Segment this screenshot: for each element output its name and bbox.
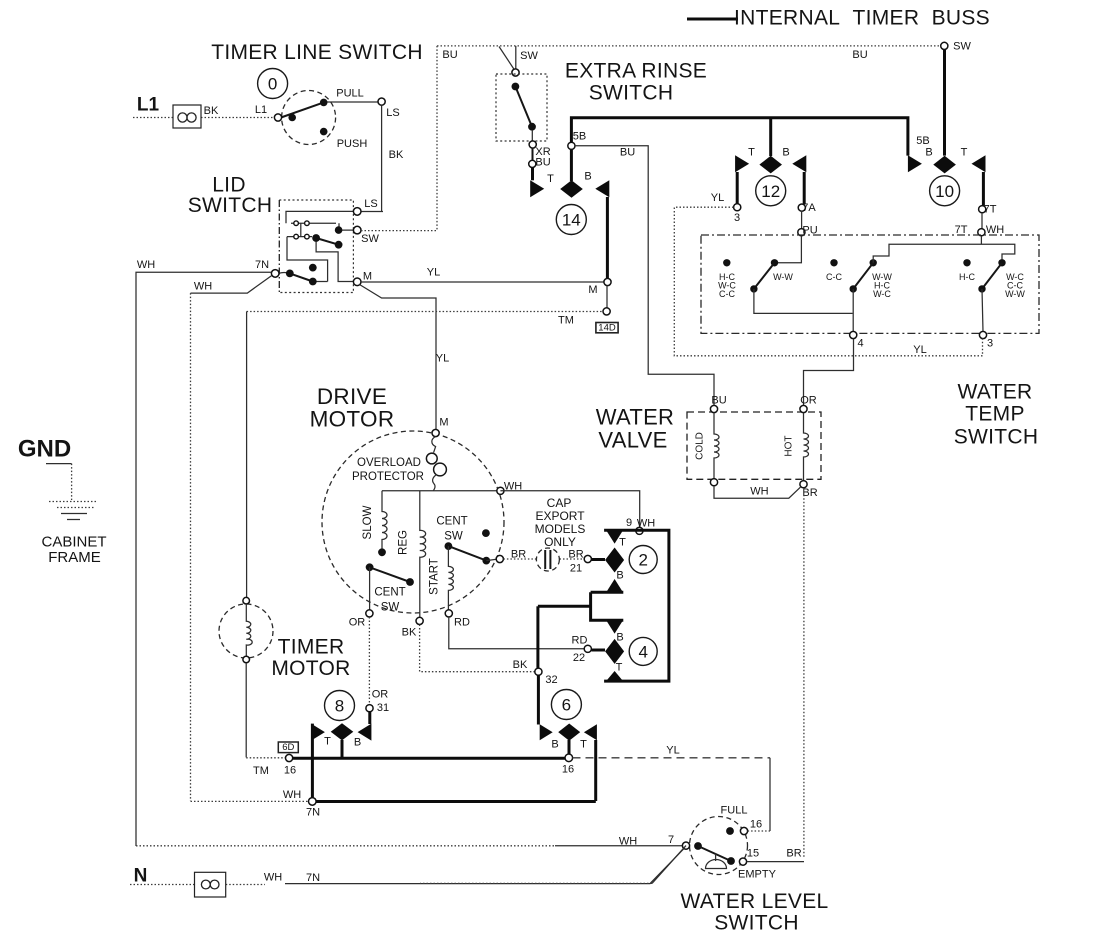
- svg-text:CABINET: CABINET: [41, 534, 106, 551]
- svg-text:W-C: W-C: [873, 289, 891, 299]
- svg-text:BK: BK: [402, 627, 417, 639]
- svg-text:B: B: [782, 147, 789, 159]
- svg-text:WH: WH: [283, 789, 301, 801]
- svg-text:BK: BK: [389, 149, 404, 161]
- svg-text:16: 16: [750, 819, 762, 831]
- svg-text:WH: WH: [137, 259, 155, 271]
- svg-text:7N: 7N: [306, 807, 320, 819]
- svg-text:FULL: FULL: [721, 805, 748, 817]
- svg-text:MODELS: MODELS: [535, 522, 586, 536]
- svg-text:YL: YL: [436, 353, 449, 365]
- svg-text:7N: 7N: [306, 872, 320, 884]
- svg-text:M: M: [363, 271, 372, 283]
- svg-text:T: T: [547, 173, 554, 185]
- svg-text:31: 31: [377, 702, 389, 714]
- svg-text:21: 21: [570, 563, 582, 575]
- svg-text:COLD: COLD: [695, 432, 706, 460]
- svg-text:7A: 7A: [802, 202, 816, 214]
- svg-text:B: B: [584, 171, 591, 183]
- svg-text:16: 16: [284, 765, 296, 777]
- svg-text:3: 3: [734, 212, 740, 224]
- svg-text:2: 2: [638, 551, 647, 570]
- svg-text:SWITCH: SWITCH: [714, 912, 799, 935]
- svg-text:9: 9: [626, 517, 632, 529]
- svg-text:VALVE: VALVE: [598, 428, 667, 453]
- svg-text:EMPTY: EMPTY: [738, 869, 777, 881]
- svg-text:WH: WH: [194, 281, 212, 293]
- svg-text:B: B: [616, 632, 623, 644]
- svg-text:BU: BU: [535, 157, 550, 169]
- svg-text:B: B: [925, 147, 932, 159]
- svg-text:14: 14: [562, 211, 581, 230]
- svg-text:T: T: [616, 662, 623, 674]
- svg-text:GND: GND: [18, 436, 71, 463]
- svg-text:RD: RD: [454, 617, 470, 629]
- svg-text:TM: TM: [253, 765, 269, 777]
- svg-text:WH: WH: [264, 872, 282, 884]
- svg-text:BK: BK: [204, 105, 219, 117]
- svg-text:OR: OR: [800, 394, 817, 406]
- svg-text:SW: SW: [520, 50, 538, 62]
- svg-text:8: 8: [335, 697, 344, 716]
- svg-text:C-C: C-C: [826, 272, 842, 282]
- svg-text:SWITCH: SWITCH: [188, 194, 273, 217]
- svg-text:PULL: PULL: [336, 88, 364, 100]
- svg-text:15: 15: [747, 848, 759, 860]
- svg-text:CAP: CAP: [547, 496, 572, 510]
- svg-text:WH: WH: [750, 486, 768, 498]
- svg-text:16: 16: [562, 764, 574, 776]
- svg-text:TM: TM: [558, 315, 574, 327]
- svg-text:BR: BR: [568, 549, 583, 561]
- svg-text:T: T: [748, 147, 755, 159]
- svg-text:PUSH: PUSH: [337, 138, 368, 150]
- svg-text:W-W: W-W: [773, 272, 793, 282]
- svg-text:BU: BU: [620, 147, 635, 159]
- svg-text:SW: SW: [381, 602, 400, 614]
- svg-text:H-C: H-C: [959, 272, 975, 282]
- svg-text:HOT: HOT: [784, 435, 795, 456]
- svg-text:TEMP: TEMP: [965, 403, 1025, 426]
- svg-text:3: 3: [987, 338, 993, 350]
- svg-text:TIMER: TIMER: [278, 636, 345, 659]
- svg-text:12: 12: [761, 182, 780, 201]
- svg-text:M: M: [588, 284, 597, 296]
- svg-text:7T: 7T: [984, 204, 997, 216]
- svg-text:YL: YL: [711, 192, 724, 204]
- svg-text:FRAME: FRAME: [48, 549, 101, 566]
- svg-text:TIMER LINE SWITCH: TIMER LINE SWITCH: [211, 41, 423, 64]
- svg-text:W-W: W-W: [1005, 289, 1025, 299]
- svg-text:BK: BK: [513, 659, 528, 671]
- svg-text:LS: LS: [364, 198, 377, 210]
- svg-text:22: 22: [573, 652, 585, 664]
- svg-text:C-C: C-C: [719, 289, 735, 299]
- svg-text:M: M: [439, 417, 448, 429]
- svg-text:WATER LEVEL: WATER LEVEL: [680, 890, 828, 913]
- svg-text:14D: 14D: [598, 322, 616, 333]
- svg-text:32: 32: [545, 674, 557, 686]
- svg-text:SW: SW: [444, 531, 463, 543]
- svg-text:T: T: [619, 537, 626, 549]
- svg-text:10: 10: [935, 182, 954, 201]
- svg-text:OR: OR: [349, 617, 366, 629]
- svg-text:T: T: [580, 739, 587, 751]
- svg-text:7: 7: [668, 834, 674, 846]
- svg-text:YL: YL: [666, 745, 679, 757]
- svg-text:4: 4: [638, 642, 647, 661]
- svg-text:OVERLOAD: OVERLOAD: [357, 457, 421, 469]
- svg-text:DRIVE: DRIVE: [317, 384, 387, 409]
- svg-text:SWITCH: SWITCH: [954, 426, 1039, 449]
- svg-text:0: 0: [268, 75, 277, 94]
- svg-text:7T: 7T: [955, 224, 968, 236]
- svg-text:6D: 6D: [282, 742, 294, 753]
- svg-text:SW: SW: [361, 233, 379, 245]
- svg-text:BU: BU: [442, 49, 457, 61]
- svg-text:5B: 5B: [916, 135, 929, 147]
- svg-text:CENT: CENT: [436, 516, 467, 528]
- svg-text:WATER: WATER: [958, 381, 1033, 404]
- svg-text:WH: WH: [619, 836, 637, 848]
- svg-text:L1: L1: [137, 95, 160, 116]
- svg-text:YL: YL: [913, 344, 926, 356]
- svg-text:ONLY: ONLY: [544, 535, 576, 549]
- svg-text:B: B: [354, 737, 361, 749]
- svg-text:MOTOR: MOTOR: [310, 407, 395, 432]
- svg-text:RD: RD: [572, 635, 588, 647]
- svg-text:BR: BR: [802, 487, 817, 499]
- svg-text:START: START: [429, 558, 441, 595]
- svg-text:N: N: [134, 866, 148, 887]
- svg-text:MOTOR: MOTOR: [271, 657, 350, 680]
- svg-text:BR: BR: [786, 848, 801, 860]
- svg-text:5B: 5B: [573, 131, 586, 143]
- svg-text:YL: YL: [427, 267, 440, 279]
- svg-text:SWITCH: SWITCH: [589, 82, 674, 105]
- svg-text:PROTECTOR: PROTECTOR: [352, 471, 424, 483]
- svg-text:BU: BU: [852, 49, 867, 61]
- svg-text:REG: REG: [398, 530, 410, 555]
- svg-text:7N: 7N: [255, 259, 269, 271]
- svg-text:BU: BU: [711, 394, 726, 406]
- svg-text:WH: WH: [637, 518, 655, 530]
- svg-text:WH: WH: [986, 224, 1004, 236]
- svg-text:L1: L1: [255, 104, 267, 116]
- svg-text:SW: SW: [953, 41, 971, 53]
- svg-text:B: B: [616, 570, 623, 582]
- svg-text:OR: OR: [372, 689, 389, 701]
- svg-text:6: 6: [562, 696, 571, 715]
- svg-text:LS: LS: [386, 107, 399, 119]
- svg-text:INTERNAL TIMER BUSS: INTERNAL TIMER BUSS: [734, 7, 990, 30]
- svg-text:SLOW: SLOW: [362, 505, 374, 539]
- svg-text:B: B: [551, 739, 558, 751]
- svg-text:WATER: WATER: [596, 405, 675, 430]
- svg-text:EXPORT: EXPORT: [535, 509, 585, 523]
- svg-text:T: T: [324, 736, 331, 748]
- svg-text:CENT: CENT: [374, 587, 405, 599]
- svg-text:T: T: [961, 147, 968, 159]
- svg-text:EXTRA RINSE: EXTRA RINSE: [565, 60, 707, 83]
- svg-text:4: 4: [857, 338, 863, 350]
